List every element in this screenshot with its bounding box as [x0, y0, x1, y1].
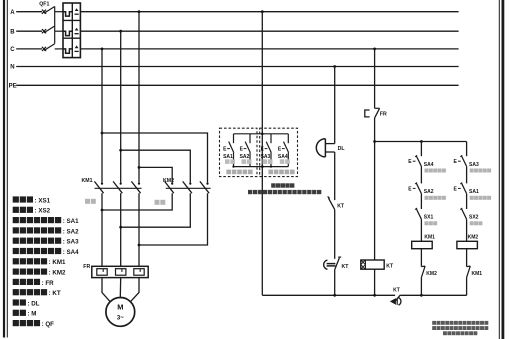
svg-text:M: M [117, 303, 123, 312]
svg-text:C: C [10, 47, 15, 53]
svg-text:: KM1: : KM1 [49, 259, 66, 266]
svg-text:: SA1: : SA1 [63, 218, 79, 225]
svg-text:KM2: KM2 [163, 178, 174, 184]
svg-text:: XS2: : XS2 [35, 208, 51, 215]
svg-text:KM2: KM2 [468, 235, 479, 241]
svg-text:A: A [10, 10, 15, 16]
svg-text:B: B [10, 29, 15, 35]
svg-text:: SA2: : SA2 [63, 228, 79, 235]
svg-text:SX1: SX1 [424, 215, 434, 221]
svg-text:: SA3: : SA3 [63, 239, 79, 246]
svg-text:: FR: : FR [42, 280, 55, 287]
svg-text:: KT: : KT [49, 290, 61, 297]
svg-text:SA3: SA3 [261, 154, 271, 160]
svg-text:KT: KT [393, 288, 400, 294]
svg-text:KT: KT [386, 263, 394, 269]
svg-text:FR: FR [380, 111, 387, 117]
svg-text:SA2: SA2 [240, 154, 250, 160]
svg-text:SX2: SX2 [469, 215, 479, 221]
svg-text:FR: FR [83, 264, 90, 270]
svg-text:SA3: SA3 [469, 162, 479, 168]
svg-text:QF1: QF1 [39, 2, 49, 8]
svg-text:SA1: SA1 [223, 154, 233, 160]
svg-text:KT: KT [337, 204, 345, 210]
svg-text:: DL: : DL [28, 300, 40, 307]
svg-text:SA4: SA4 [278, 154, 288, 160]
svg-text:: SA4: : SA4 [63, 249, 79, 256]
svg-text:: XS1: : XS1 [35, 197, 51, 204]
svg-text:: M: : M [28, 311, 37, 318]
svg-text:PE: PE [9, 84, 17, 90]
svg-text:: QF: : QF [42, 321, 55, 328]
svg-text:: KM2: : KM2 [49, 270, 66, 277]
svg-text:KM1: KM1 [82, 178, 93, 184]
svg-text:N: N [10, 65, 14, 71]
svg-text:KM2: KM2 [426, 271, 437, 277]
svg-text:SA4: SA4 [424, 162, 434, 168]
svg-text:KT: KT [342, 264, 350, 270]
svg-text:3~: 3~ [117, 316, 124, 322]
svg-text:SA1: SA1 [469, 189, 479, 195]
svg-text:KM1: KM1 [424, 235, 435, 241]
svg-text:SA2: SA2 [424, 189, 434, 195]
svg-text:DL: DL [338, 146, 346, 152]
svg-text:KM1: KM1 [472, 271, 483, 277]
